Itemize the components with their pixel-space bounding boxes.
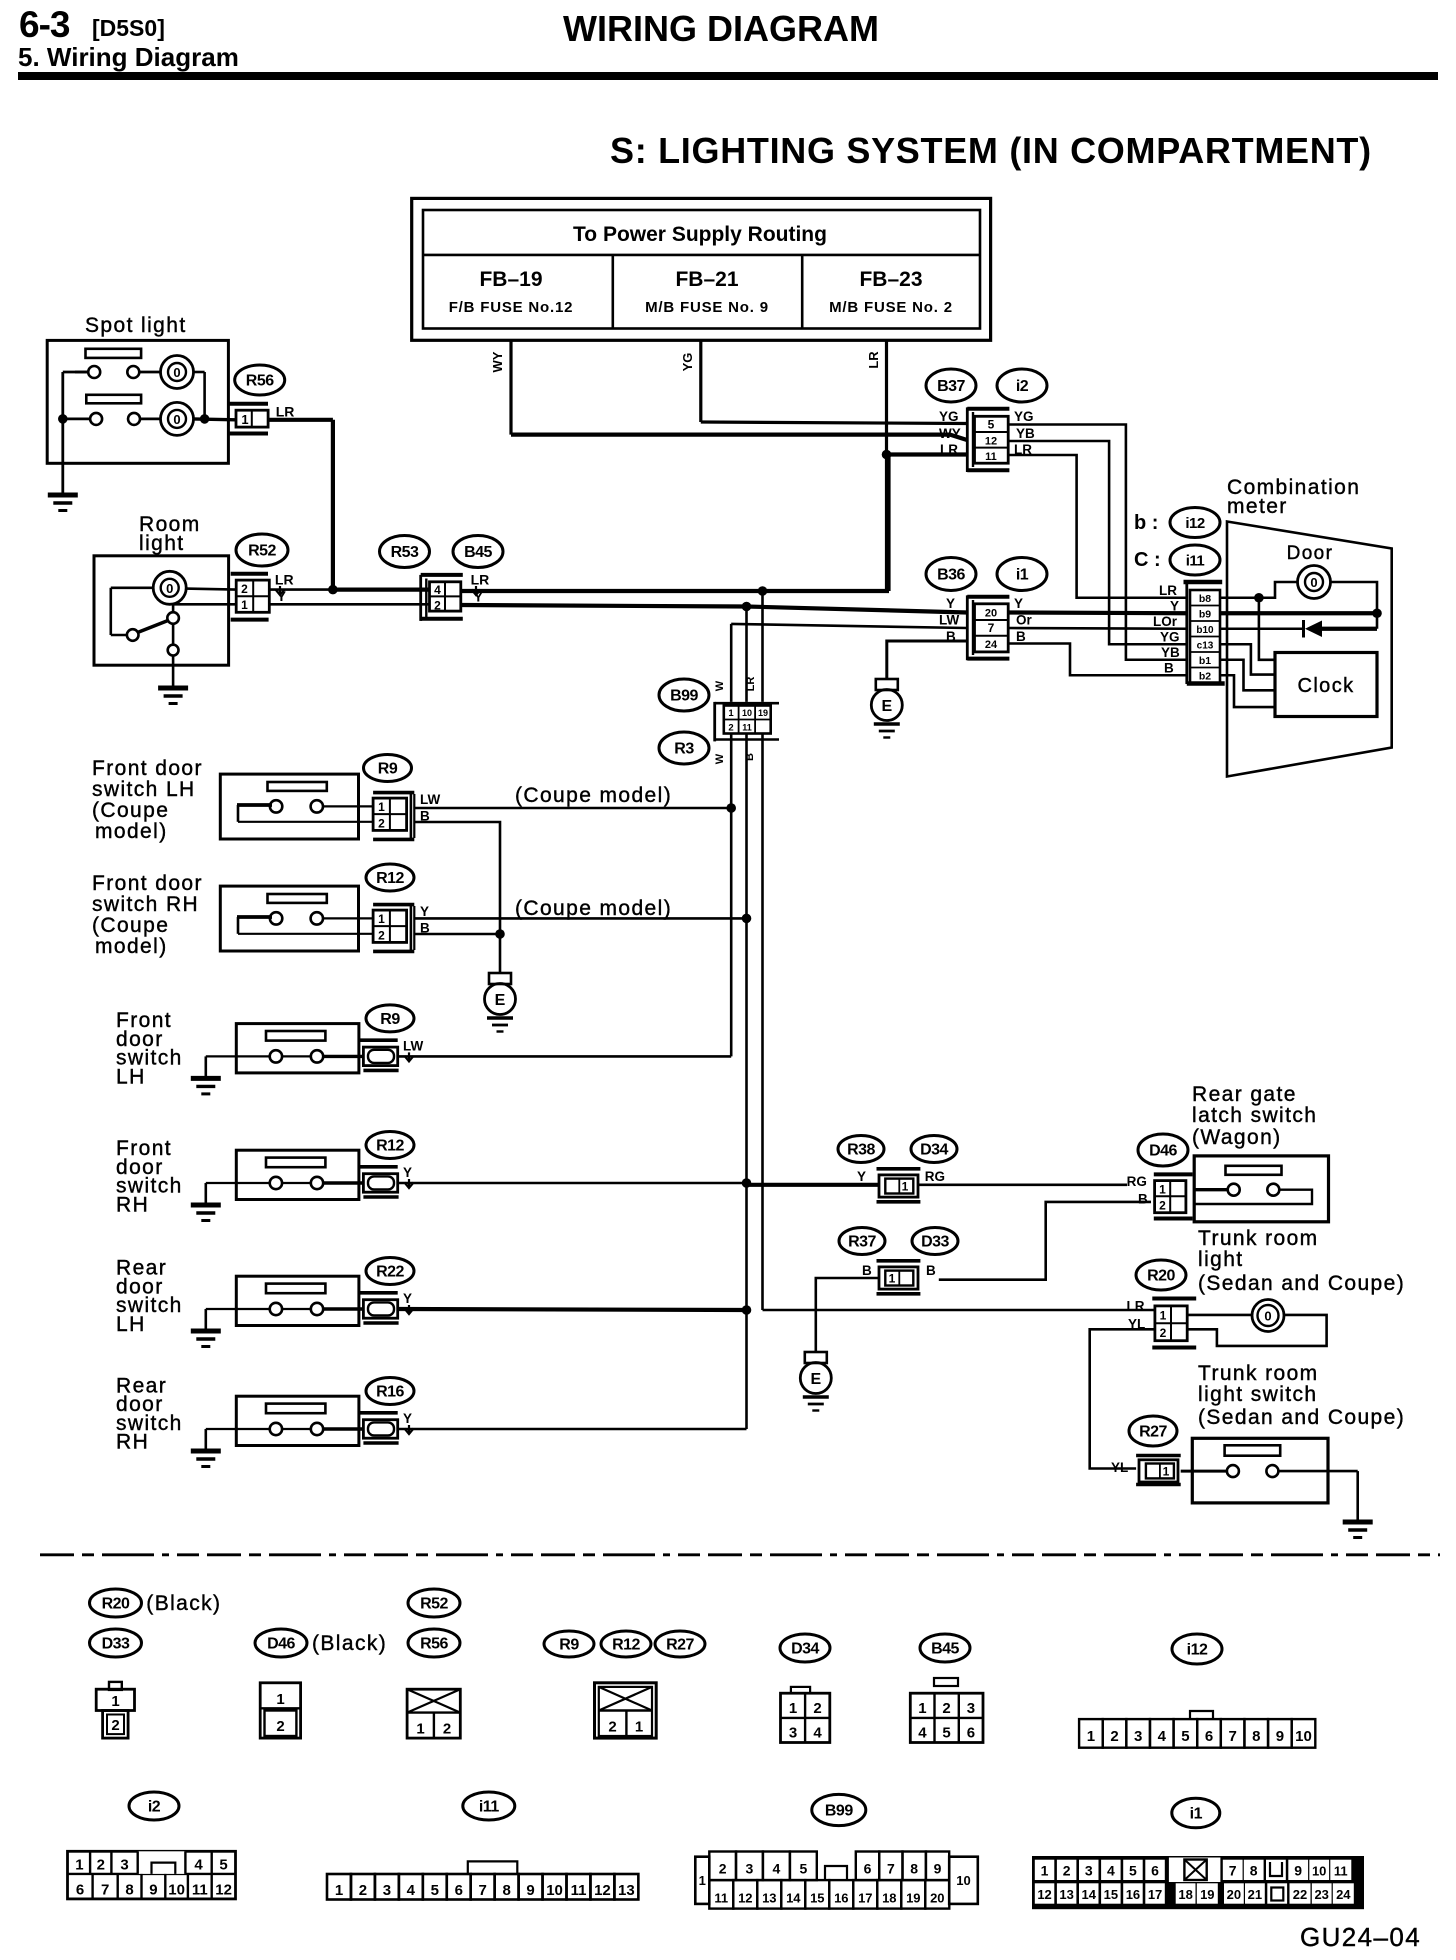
wire LR corner: [761, 1309, 764, 1312]
svg-text:model): model): [95, 820, 168, 843]
svg-text:D46: D46: [267, 1636, 295, 1653]
pin glyph R52/R56: [407, 1689, 460, 1738]
svg-text:7: 7: [887, 1861, 895, 1877]
svg-text:6-3: 6-3: [19, 4, 70, 45]
wire LR main: [461, 589, 889, 593]
wire B to E: [816, 1278, 879, 1352]
node spot output: [200, 414, 210, 424]
svg-text:Y: Y: [403, 1165, 412, 1180]
node: [726, 803, 736, 813]
svg-text:i2: i2: [1016, 378, 1029, 395]
svg-text:10: 10: [546, 1882, 563, 1899]
svg-text:Clock: Clock: [1297, 675, 1354, 697]
svg-text:22: 22: [1293, 1887, 1307, 1902]
rear gate latch switch box: [1194, 1156, 1328, 1222]
svg-text:2: 2: [434, 599, 441, 613]
svg-text:R3: R3: [674, 741, 694, 758]
wire Y coupe: [414, 917, 746, 920]
svg-text:YL: YL: [1111, 1460, 1128, 1475]
wire Y rear RH: [398, 1428, 747, 1431]
svg-text:R56: R56: [246, 373, 274, 390]
wire: [236, 1428, 269, 1430]
svg-text:24: 24: [985, 639, 998, 651]
ground E R37: [805, 1352, 827, 1363]
svg-text:WY: WY: [939, 426, 961, 441]
contact a: [270, 912, 282, 924]
spot light box: [47, 340, 228, 463]
contact b: [311, 1177, 323, 1189]
svg-text:9: 9: [1276, 1728, 1284, 1745]
wire to ground: [61, 419, 64, 494]
connector B45 label: [453, 536, 503, 568]
pin glyph i11: [468, 1861, 518, 1874]
svg-text:0: 0: [1310, 575, 1317, 590]
lens bar: [1226, 1166, 1282, 1175]
svg-text:2: 2: [942, 1700, 950, 1717]
svg-text:1: 1: [728, 708, 734, 719]
svg-text:LOr: LOr: [1153, 614, 1178, 629]
contact b: [1266, 1465, 1278, 1477]
ref R56 label: [408, 1629, 460, 1657]
lens bar: [266, 1404, 325, 1414]
svg-text:3: 3: [789, 1725, 797, 1742]
connector R52 label: [236, 534, 288, 566]
svg-text:FB–19: FB–19: [479, 268, 542, 291]
contact a: [270, 1177, 282, 1189]
svg-text:8: 8: [1252, 1728, 1260, 1745]
diode: [1302, 620, 1305, 638]
wire b2 to clock: [1220, 675, 1275, 707]
svg-text:0: 0: [1264, 1309, 1271, 1324]
svg-text:R27: R27: [666, 1637, 694, 1654]
connector R22: [359, 1291, 398, 1295]
ground: [158, 686, 188, 691]
wire B36-B to E: [887, 641, 967, 679]
wire Y to i11: [1008, 610, 1188, 615]
svg-text:1: 1: [635, 1719, 643, 1736]
svg-text:R12: R12: [612, 1637, 640, 1654]
plunger: [237, 803, 272, 807]
svg-text:c13: c13: [1197, 641, 1214, 652]
svg-text:11: 11: [742, 723, 752, 733]
wire to ground: [206, 1182, 237, 1184]
svg-text:R20: R20: [1147, 1268, 1175, 1285]
svg-text:LH: LH: [116, 1313, 146, 1336]
svg-text:B: B: [926, 1263, 936, 1278]
svg-text:1: 1: [1159, 1183, 1166, 1197]
svg-text:0: 0: [166, 581, 173, 596]
svg-text:LW: LW: [403, 1038, 424, 1053]
contact b: [311, 912, 323, 924]
wire: [236, 1308, 269, 1310]
svg-text:4: 4: [194, 1857, 203, 1874]
wire: [111, 586, 154, 589]
svg-text:1: 1: [889, 1272, 896, 1286]
connector B99 label: [659, 679, 709, 711]
ground: [48, 493, 78, 498]
svg-text:switch RH: switch RH: [92, 893, 199, 916]
svg-text:(Coupe model): (Coupe model): [515, 784, 672, 807]
room light bulb: [153, 571, 186, 604]
svg-text:R38: R38: [847, 1142, 875, 1159]
svg-text:10: 10: [168, 1882, 185, 1899]
pin glyph D46: [260, 1683, 300, 1738]
svg-text:5: 5: [1181, 1728, 1189, 1745]
svg-text:2: 2: [241, 582, 248, 596]
svg-text:11: 11: [571, 1882, 587, 1899]
wire LR room: [269, 588, 333, 591]
ground: [191, 1076, 221, 1081]
node: [742, 1305, 752, 1315]
wire Y room: [269, 603, 429, 606]
svg-text:8: 8: [125, 1882, 133, 1899]
svg-text:6: 6: [967, 1725, 975, 1742]
svg-text:YG: YG: [939, 409, 959, 424]
wire Y front RH: [398, 1182, 747, 1185]
svg-text:b8: b8: [1199, 593, 1211, 605]
svg-text:19: 19: [906, 1891, 920, 1906]
wire b9: [1220, 611, 1377, 615]
spot light contact 2b: [128, 413, 140, 425]
svg-text:7: 7: [101, 1882, 109, 1899]
svg-text:6: 6: [455, 1882, 463, 1899]
node door: [1254, 593, 1264, 603]
svg-text:8: 8: [910, 1861, 918, 1877]
wire door loop: [1330, 582, 1378, 629]
svg-text:LH: LH: [116, 1065, 146, 1088]
connector D34 label: [911, 1136, 957, 1163]
svg-text:15: 15: [1104, 1887, 1118, 1902]
connector R16 label: [366, 1378, 414, 1405]
svg-text:19: 19: [1200, 1887, 1214, 1902]
svg-text:2: 2: [111, 1717, 119, 1734]
svg-text:i11: i11: [479, 1799, 499, 1816]
lens bar: [266, 1284, 325, 1294]
connector R27: [1136, 1454, 1181, 1458]
ref i11 label: [463, 1792, 515, 1820]
node Y branch: [742, 602, 752, 612]
svg-text:i2: i2: [148, 1799, 161, 1816]
svg-text:E: E: [810, 1371, 821, 1388]
wire: [75, 371, 88, 374]
svg-text:5: 5: [219, 1857, 227, 1874]
svg-text:1: 1: [1087, 1728, 1095, 1745]
svg-text:3: 3: [746, 1861, 754, 1877]
connector R37 label: [839, 1228, 885, 1255]
svg-text:GU24–04: GU24–04: [1300, 1922, 1421, 1952]
svg-text:B99: B99: [670, 688, 698, 705]
connector D46: [1154, 1172, 1193, 1176]
svg-text:2: 2: [608, 1719, 616, 1736]
svg-text:R16: R16: [376, 1384, 404, 1401]
svg-text:i12: i12: [1185, 515, 1205, 532]
svg-text:B: B: [1164, 661, 1174, 676]
svg-text:R56: R56: [420, 1636, 448, 1653]
wire b8 to door bulb: [1220, 582, 1299, 598]
ref R52 label: [408, 1589, 460, 1617]
svg-text:B36: B36: [937, 567, 965, 584]
svg-text:19: 19: [758, 708, 768, 718]
svg-text:2: 2: [1063, 1863, 1071, 1879]
svg-text:R12: R12: [376, 1138, 404, 1155]
ref B45 label: [920, 1634, 970, 1662]
front door switch RH box: [236, 1150, 359, 1199]
spot light bulb 1: [161, 356, 194, 389]
svg-text:2: 2: [443, 1721, 451, 1738]
svg-text:i11: i11: [1186, 553, 1205, 570]
svg-text:LW: LW: [420, 792, 441, 807]
wire bulb outputs: [193, 371, 205, 374]
svg-text:D33: D33: [921, 1234, 949, 1251]
connector D46 label: [1138, 1134, 1188, 1166]
svg-text:12: 12: [215, 1882, 232, 1899]
svg-text:1: 1: [918, 1700, 926, 1717]
svg-text:13: 13: [762, 1891, 776, 1906]
svg-text:4: 4: [918, 1725, 927, 1742]
svg-text:5. Wiring Diagram: 5. Wiring Diagram: [18, 42, 239, 72]
svg-text:light: light: [139, 532, 185, 555]
svg-text:model): model): [95, 935, 168, 958]
svg-text:1: 1: [111, 1693, 119, 1710]
svg-text:12: 12: [1037, 1887, 1051, 1902]
svg-text:i1: i1: [1016, 567, 1029, 584]
ref R20 label: [90, 1589, 142, 1617]
svg-text:1: 1: [699, 1873, 706, 1888]
svg-text:RG: RG: [925, 1169, 945, 1184]
svg-text:b9: b9: [1199, 609, 1211, 621]
contact a: [270, 1423, 282, 1435]
wire: [1181, 1470, 1227, 1473]
contact a: [1227, 1465, 1239, 1477]
svg-text:2: 2: [276, 1718, 284, 1735]
connector R38: [877, 1167, 921, 1171]
connector R12 coupe: [373, 903, 414, 907]
svg-text:B99: B99: [825, 1803, 853, 1820]
svg-text:3: 3: [1085, 1863, 1093, 1879]
svg-text:8: 8: [1250, 1863, 1258, 1879]
contact b: [311, 1423, 323, 1435]
svg-text:10: 10: [1295, 1728, 1312, 1745]
ref R9 label: [544, 1631, 594, 1657]
svg-text:2: 2: [378, 817, 385, 831]
header rule: [18, 72, 1438, 80]
svg-text:3: 3: [383, 1882, 391, 1899]
svg-text:4: 4: [407, 1882, 416, 1899]
connector R20 label: [1136, 1260, 1186, 1290]
wire bulb loop: [1187, 1315, 1326, 1346]
wire b8 branch to clock: [1259, 598, 1275, 660]
svg-text:11: 11: [192, 1882, 208, 1899]
svg-text:YB: YB: [1016, 426, 1035, 441]
spot light contact 1b: [127, 366, 139, 378]
pin glyph B45: [934, 1678, 958, 1686]
contact a: [1228, 1184, 1240, 1196]
wire LR trunk: [763, 1309, 1155, 1312]
svg-text:13: 13: [1059, 1887, 1073, 1902]
svg-text:R9: R9: [378, 761, 398, 778]
svg-text:4: 4: [1158, 1728, 1167, 1745]
svg-text:YG: YG: [680, 353, 695, 372]
svg-text:LR: LR: [471, 572, 490, 588]
svg-text:B: B: [862, 1263, 872, 1278]
svg-text:Trunk room: Trunk room: [1198, 1362, 1319, 1385]
svg-text:2: 2: [728, 723, 733, 734]
plunger: [237, 915, 272, 919]
wire LR from FB-23: [885, 340, 888, 591]
ground: [191, 1329, 221, 1334]
svg-text:1: 1: [789, 1700, 797, 1717]
svg-text:14: 14: [1082, 1887, 1097, 1902]
ref i1 label: [1172, 1798, 1220, 1828]
wire: [63, 417, 90, 420]
spot light contact 2a: [90, 413, 102, 425]
front door switch LH coupe box: [220, 774, 358, 839]
svg-text:S: LIGHTING SYSTEM (IN COMPART: S: LIGHTING SYSTEM (IN COMPARTMENT): [610, 130, 1372, 171]
svg-text:Front door: Front door: [92, 757, 203, 780]
lens bar: [1225, 1445, 1281, 1455]
node: [742, 914, 752, 924]
wire: [63, 371, 88, 374]
contact b: [311, 1303, 323, 1315]
svg-text:R52: R52: [420, 1596, 448, 1613]
svg-text:24: 24: [1336, 1887, 1351, 1902]
svg-text:LW: LW: [939, 613, 960, 628]
svg-text:16: 16: [1126, 1887, 1140, 1902]
connector i1 label: [997, 558, 1047, 591]
svg-text:latch switch: latch switch: [1192, 1104, 1317, 1127]
pin glyph i1: [1032, 1856, 1364, 1909]
connector R38 label: [838, 1136, 884, 1163]
svg-text:1: 1: [241, 598, 248, 612]
wire: [1194, 1188, 1227, 1191]
svg-text:14: 14: [786, 1891, 801, 1906]
svg-text:1: 1: [276, 1691, 284, 1708]
svg-text:5: 5: [942, 1725, 950, 1742]
svg-text:LR: LR: [275, 572, 294, 588]
svg-text:Y: Y: [857, 1169, 866, 1184]
svg-text:9: 9: [526, 1882, 534, 1899]
spot light lens bar 1: [86, 349, 142, 358]
connector R37: [877, 1259, 921, 1263]
ref i12 label: [1172, 1634, 1222, 1664]
svg-text:15: 15: [810, 1891, 824, 1906]
svg-text:b2: b2: [1199, 671, 1211, 683]
svg-text:4: 4: [1107, 1863, 1115, 1879]
wire: [172, 604, 175, 612]
lens bar: [268, 894, 327, 903]
svg-text:8: 8: [502, 1882, 510, 1899]
connector R53 label: [380, 536, 430, 568]
wire to ground: [1279, 1470, 1358, 1473]
svg-text:LR: LR: [940, 442, 958, 457]
wire RG: [918, 1184, 1127, 1187]
svg-text:LR: LR: [745, 677, 757, 692]
svg-text:B45: B45: [931, 1641, 959, 1658]
connector R56: [229, 402, 268, 406]
svg-text:R52: R52: [248, 543, 276, 560]
svg-text:11: 11: [714, 1891, 728, 1906]
svg-text:17: 17: [858, 1891, 872, 1906]
lens bar: [268, 782, 327, 791]
power supply routing box: [412, 198, 991, 340]
svg-text:4: 4: [773, 1861, 781, 1877]
svg-text:Spot light: Spot light: [85, 314, 187, 337]
svg-text:20: 20: [930, 1891, 944, 1906]
svg-text:2: 2: [1160, 1326, 1167, 1340]
wire: [323, 917, 373, 919]
svg-text:2: 2: [1159, 1199, 1166, 1213]
svg-text:6: 6: [864, 1861, 872, 1877]
svg-text:1: 1: [1163, 1465, 1170, 1479]
wire W through: [730, 734, 733, 1057]
svg-text:(Coupe: (Coupe: [92, 914, 169, 937]
svg-text:10: 10: [742, 708, 752, 718]
svg-text:D34: D34: [791, 1641, 819, 1658]
pin glyph B99: [695, 1857, 709, 1904]
svg-text:1: 1: [416, 1721, 424, 1738]
wire LR: [333, 587, 430, 591]
contact a: [270, 1303, 282, 1315]
svg-text:4: 4: [434, 583, 441, 597]
node: [495, 929, 505, 939]
svg-text:Y: Y: [403, 1291, 412, 1306]
trunk room light bulb: [1252, 1300, 1284, 1332]
lens bar: [266, 1031, 325, 1041]
connector B37 label: [926, 369, 976, 402]
wire to ground: [172, 624, 175, 645]
svg-text:R53: R53: [391, 544, 419, 561]
spot light lens bar 2: [86, 395, 141, 404]
switch contact upper: [167, 612, 179, 624]
pin glyph i12: [1190, 1711, 1213, 1719]
svg-text:i12: i12: [1187, 1642, 1208, 1659]
svg-text:E: E: [495, 992, 506, 1009]
wire c13 to clock: [1220, 644, 1275, 674]
svg-text:R22: R22: [376, 1264, 404, 1281]
pin glyph R9/R12/R27: [595, 1683, 657, 1738]
connector R20: [1152, 1297, 1196, 1301]
connector R3 label: [659, 732, 709, 764]
ground: [191, 1449, 221, 1454]
ref D34 label: [780, 1634, 830, 1662]
svg-text:9: 9: [1294, 1863, 1302, 1879]
connector B36 label: [926, 558, 976, 591]
svg-text:b1: b1: [1199, 655, 1211, 667]
connector B99/R3: [713, 702, 716, 742]
lens bar: [266, 1158, 325, 1168]
wire: [323, 805, 373, 807]
svg-text:b :: b :: [1134, 512, 1158, 534]
svg-text:LR: LR: [866, 351, 881, 369]
svg-text:1: 1: [75, 1857, 83, 1874]
svg-text:5: 5: [799, 1861, 807, 1877]
svg-text:2: 2: [97, 1857, 105, 1874]
svg-text:Y: Y: [1014, 596, 1023, 611]
connector R12: [359, 1165, 398, 1169]
connector R9: [359, 1038, 398, 1042]
wire LW coupe: [414, 807, 731, 810]
wire to ground: [206, 1428, 237, 1430]
svg-text:2: 2: [1110, 1728, 1118, 1745]
switch contact lower: [168, 645, 179, 656]
svg-text:20: 20: [1227, 1887, 1241, 1902]
svg-text:11: 11: [985, 451, 997, 463]
node LR junction: [328, 585, 338, 595]
svg-text:3: 3: [967, 1700, 975, 1717]
svg-text:Front door: Front door: [92, 872, 203, 895]
svg-text:16: 16: [834, 1891, 848, 1906]
svg-text:Y: Y: [946, 596, 955, 611]
